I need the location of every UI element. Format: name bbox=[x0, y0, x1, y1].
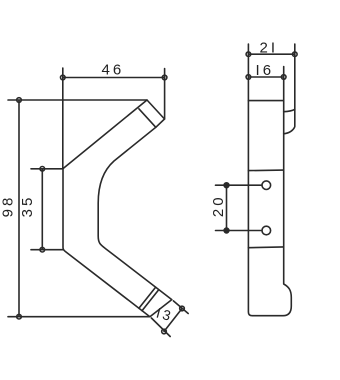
svg-text:46: 46 bbox=[102, 62, 125, 79]
svg-text:20: 20 bbox=[210, 194, 227, 217]
svg-text:98: 98 bbox=[0, 195, 17, 218]
svg-text:35: 35 bbox=[19, 195, 36, 218]
svg-text:I6: I6 bbox=[256, 62, 275, 79]
svg-text:2I: 2I bbox=[260, 39, 279, 56]
